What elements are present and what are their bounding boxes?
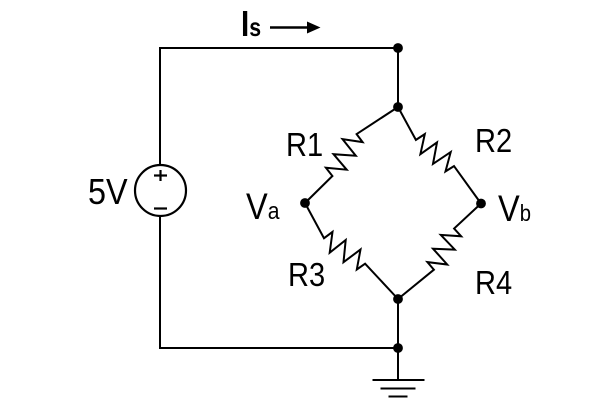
resistor R1 zigzag — [305, 107, 398, 203]
resistor R4 zigzag — [398, 204, 481, 300]
ground symbol — [373, 348, 425, 397]
label 5V — [88, 171, 128, 213]
resistor R2 zigzag — [398, 107, 481, 204]
label R4 — [475, 264, 512, 302]
wire: left vertical from top corner down to source top — [159, 48, 161, 165]
current arrow Is — [270, 22, 321, 34]
node junction dot Va — [300, 198, 310, 208]
resistor R3 zigzag — [305, 203, 398, 299]
label R1 — [286, 126, 323, 164]
label Vb — [498, 188, 531, 230]
label Va — [246, 186, 279, 228]
node junction dot ground junction — [393, 343, 403, 353]
wire: top horizontal from left corner to top node — [159, 47, 398, 49]
label Is — [241, 3, 261, 45]
voltage source V1 circle — [135, 165, 186, 216]
wire: bridge bottom node down to ground junction — [397, 299, 399, 348]
label R2 — [475, 122, 512, 160]
node junction dot bridge bottom — [393, 294, 403, 304]
wire: left vertical from source bottom down to bottom corner — [159, 216, 161, 348]
node junction dot top — [393, 43, 403, 53]
label R3 — [288, 256, 325, 294]
wire: top node down to bridge top node — [397, 48, 399, 107]
node junction dot Vb — [476, 199, 486, 209]
node junction dot bridge top — [393, 102, 403, 112]
wire: bottom horizontal from left corner to ground junction — [159, 347, 398, 349]
voltage source plus sign — [154, 170, 167, 181]
voltage source minus sign — [154, 207, 167, 209]
